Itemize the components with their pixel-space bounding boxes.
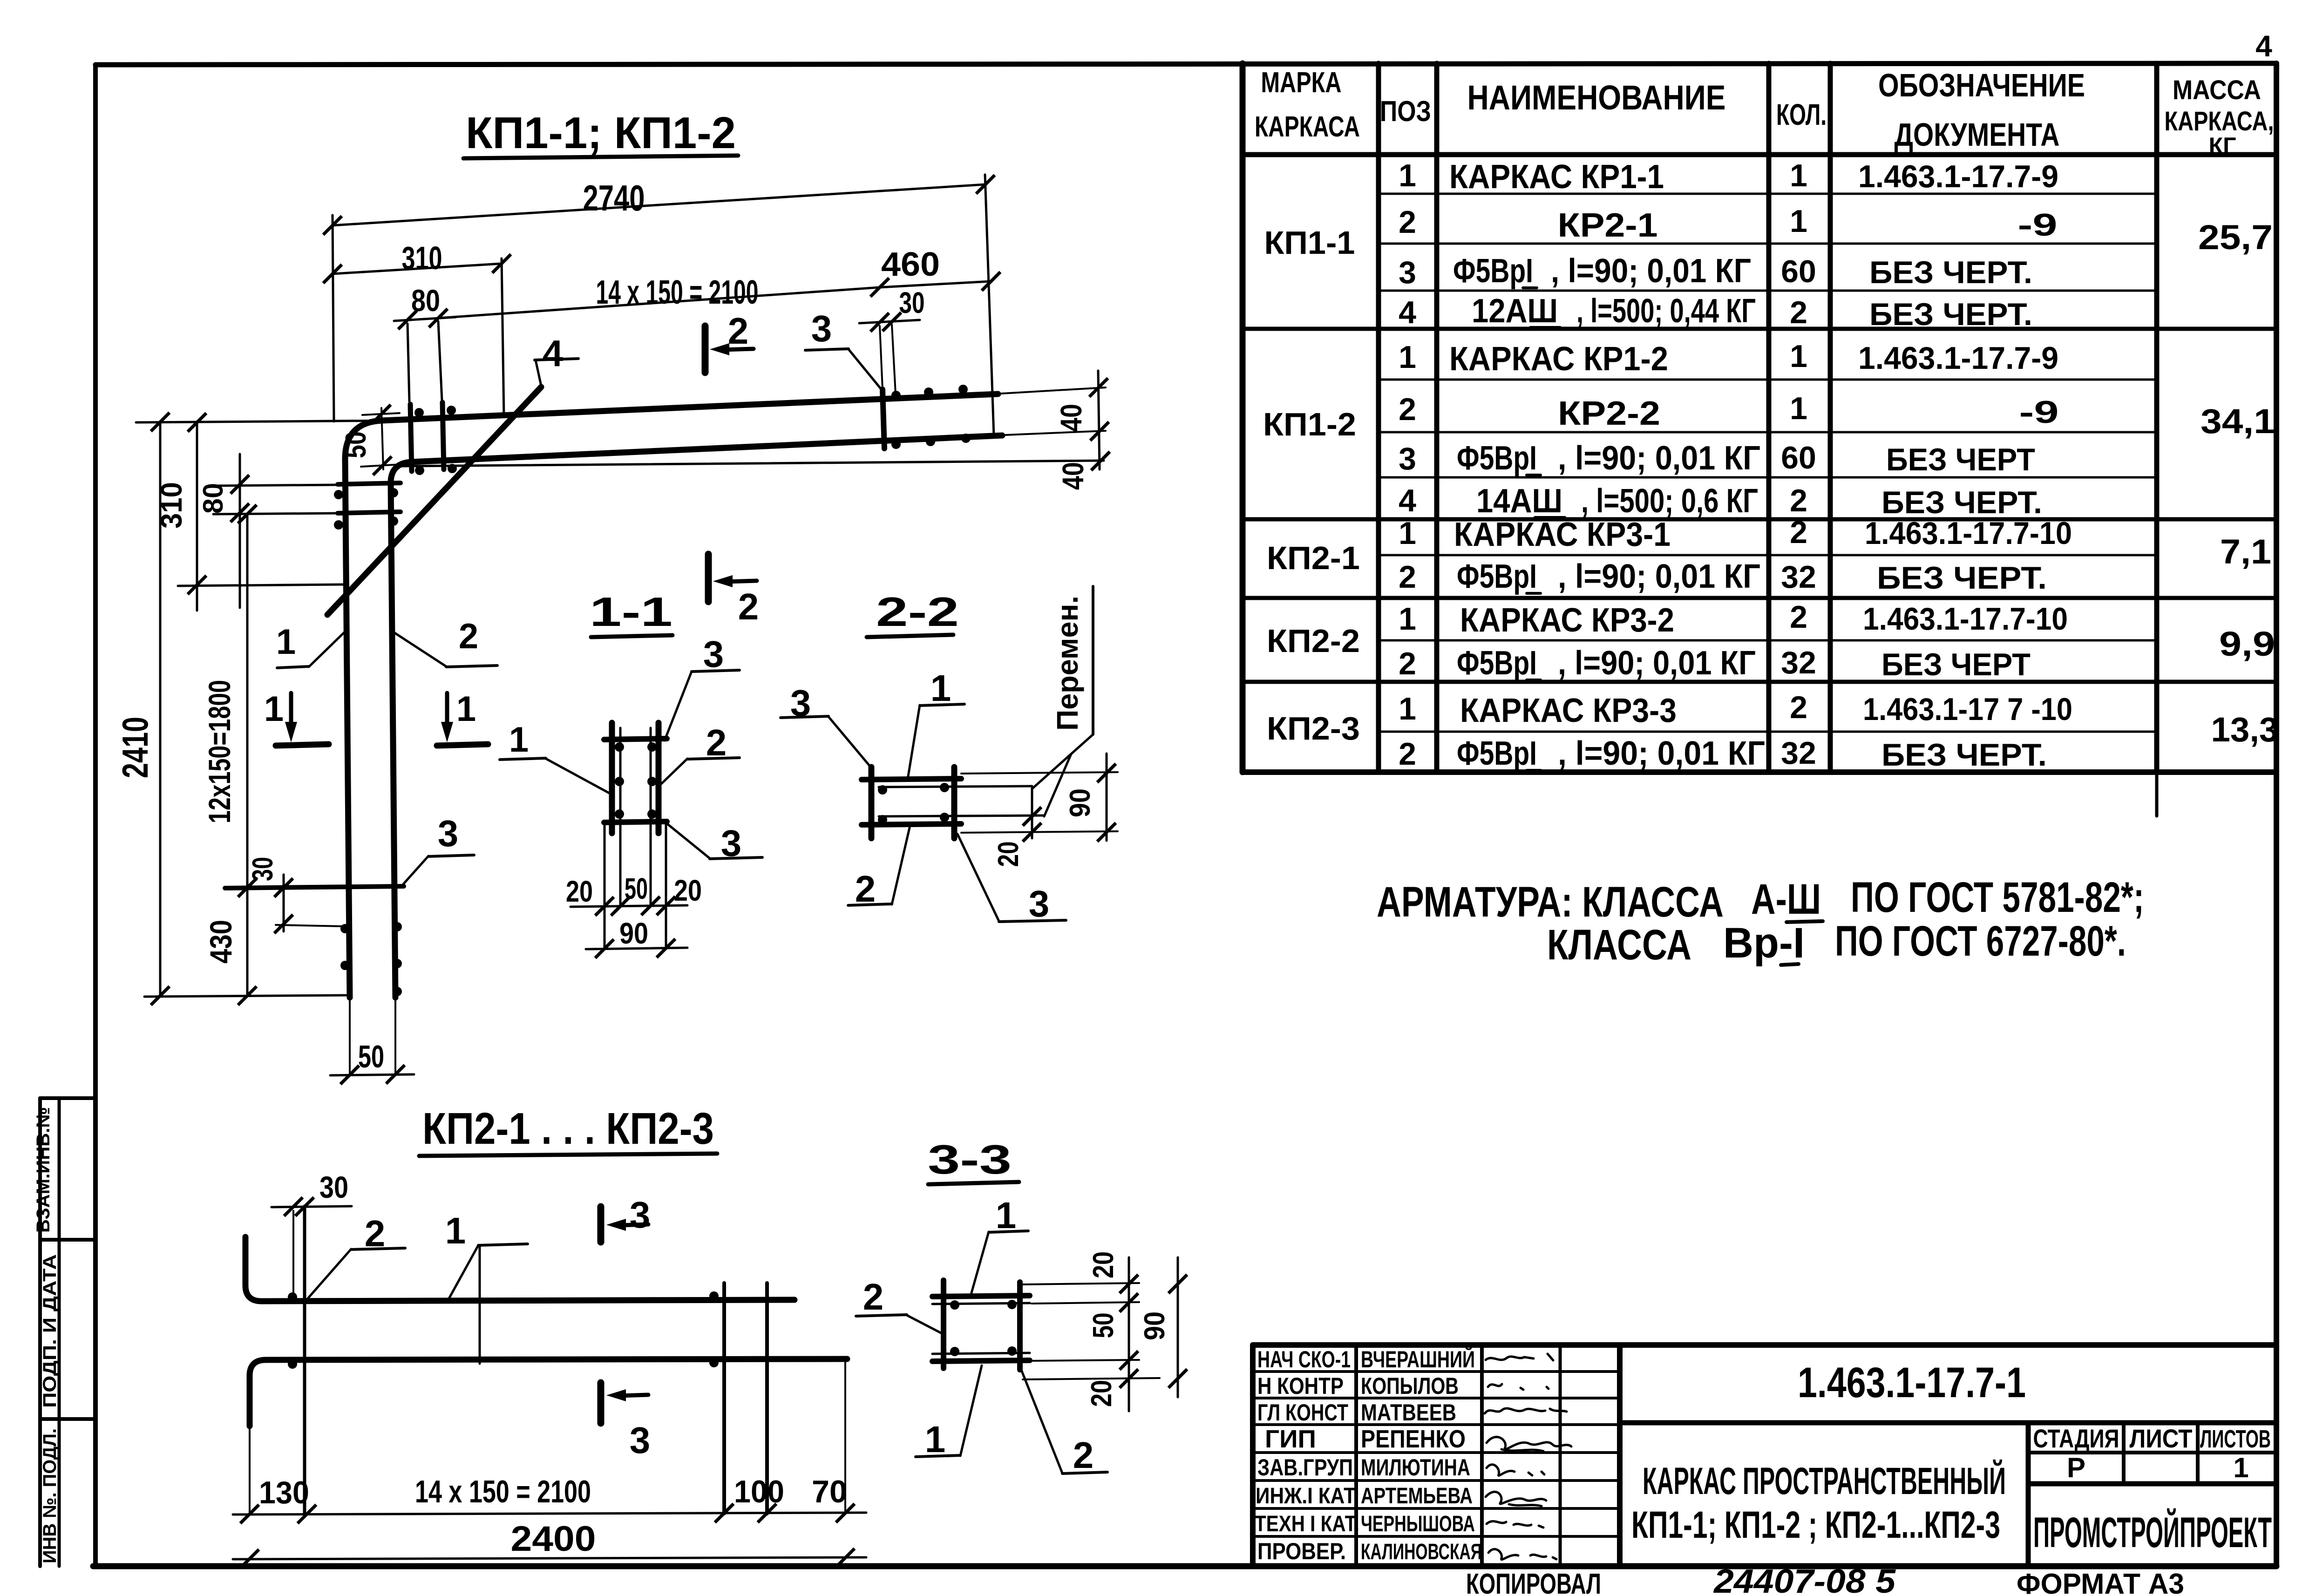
weld dots on column chords at corner ties: [334, 490, 343, 499]
svg-text:2740: 2740: [583, 177, 645, 218]
table row line r2: [1379, 243, 2157, 245]
svg-text:70: 70: [812, 1474, 847, 1509]
svg-text:2: 2: [1399, 204, 1416, 240]
dim 14x150=2100: [438, 287, 880, 318]
svg-text:90: 90: [619, 917, 648, 950]
svg-text:ИНВ №. ПОДЛ.: ИНВ №. ПОДЛ.: [40, 1428, 60, 1563]
svg-text:20: 20: [566, 875, 593, 908]
svg-text:25,7: 25,7: [2198, 218, 2273, 257]
КП2 section mark 3 lower: [598, 1383, 604, 1423]
svg-text:12x150=1800: 12x150=1800: [202, 680, 237, 823]
svg-text:30: 30: [899, 286, 925, 319]
svg-text:2: 2: [728, 310, 749, 352]
section mark 1 right: [437, 744, 488, 746]
svg-text:КГ: КГ: [2209, 133, 2236, 159]
svg-text:12АШ: 12АШ: [1472, 292, 1558, 330]
section 1-1 outer extension lines: [604, 822, 606, 948]
svg-text:Ф5ВрI: Ф5ВрI: [1457, 645, 1537, 682]
svg-text:ПОДП. И ДАТА: ПОДП. И ДАТА: [40, 1254, 60, 1408]
table outer left border: [1240, 63, 1246, 772]
svg-text:ТЕХН I КАТ.: ТЕХН I КАТ.: [1255, 1512, 1359, 1536]
svg-text:БЕЗ ЧЕРТ.: БЕЗ ЧЕРТ.: [1881, 737, 2047, 773]
svg-text:20: 20: [992, 842, 1025, 867]
svg-text:ЗАВ.ГРУП: ЗАВ.ГРУП: [1257, 1454, 1353, 1481]
table column line Наименование/Кол: [1766, 63, 1772, 772]
svg-text:2: 2: [459, 617, 478, 656]
svg-text:90: 90: [1064, 788, 1096, 817]
svg-text:ЛИСТОВ: ЛИСТОВ: [2200, 1425, 2271, 1453]
svg-text:2: 2: [1790, 690, 1807, 725]
svg-text:2: 2: [1790, 483, 1807, 518]
svg-text:40: 40: [1056, 462, 1090, 490]
svg-text:1.463.1-17 7 -10: 1.463.1-17 7 -10: [1863, 692, 2072, 727]
svg-text:ГИП: ГИП: [1265, 1425, 1316, 1453]
svg-text:КОЛ.: КОЛ.: [1776, 98, 1827, 131]
svg-text:40: 40: [1054, 404, 1088, 432]
svg-text:А-Ш: А-Ш: [1751, 876, 1821, 923]
section 3-3 stirrup right leg: [1017, 1282, 1023, 1370]
svg-text:КАРКАС КР3-1: КАРКАС КР3-1: [1454, 516, 1671, 553]
section 3-3 extension lines: [1023, 1283, 1139, 1284]
table row line r5: [1379, 379, 2157, 381]
dim 30 (column bottom): [283, 875, 285, 931]
svg-text:-9: -9: [2019, 394, 2059, 430]
svg-text:Н КОНТР: Н КОНТР: [1257, 1373, 1344, 1399]
column tie a: [338, 483, 401, 484]
svg-text:2: 2: [1790, 295, 1807, 330]
svg-text:КОПИРОВАЛ: КОПИРОВАЛ: [1466, 1568, 1601, 1596]
svg-text:2: 2: [1073, 1434, 1094, 1476]
section 2-2 dim 20: [1031, 788, 1033, 838]
svg-text:1: 1: [930, 667, 951, 709]
svg-text:2: 2: [1399, 559, 1416, 595]
section 1-1 dim 90: [586, 948, 687, 949]
svg-text:ИНЖ.I КАТ: ИНЖ.I КАТ: [1256, 1484, 1356, 1508]
svg-text:14 x 150 = 2100: 14 x 150 = 2100: [596, 274, 759, 311]
svg-text:2: 2: [738, 586, 759, 627]
beam stirrup near corner a: [410, 404, 412, 471]
svg-text:КАРКАСА: КАРКАСА: [1255, 111, 1360, 143]
svg-text:32: 32: [1781, 735, 1816, 771]
svg-text:КП1-1: КП1-1: [1264, 224, 1355, 261]
svg-text:2: 2: [1399, 736, 1416, 772]
dim 12x150=1800 (vertical): [246, 514, 249, 996]
weld dots on beam bottom chord: [415, 466, 424, 475]
signature table verticals: [1354, 1345, 1358, 1566]
dim 30 right: [859, 320, 920, 323]
svg-text:1: 1: [996, 1195, 1017, 1236]
dim 80 top: [394, 317, 455, 321]
svg-text:100: 100: [734, 1474, 784, 1509]
svg-text:2400: 2400: [511, 1519, 596, 1559]
svg-text:20: 20: [1086, 1380, 1118, 1407]
svg-text:КЛАССА: КЛАССА: [1547, 921, 1691, 969]
section 1-1 stirrup left leg (thin): [619, 728, 622, 906]
svg-text:БЕЗ ЧЕРТ.: БЕЗ ЧЕРТ.: [1877, 560, 2047, 596]
svg-text:ФОРМАТ А3: ФОРМАТ А3: [2017, 1568, 2184, 1596]
svg-text:3-3: 3-3: [928, 1136, 1012, 1182]
svg-text:ПРОМСТРОЙПРОЕКТ: ПРОМСТРОЙПРОЕКТ: [2033, 1508, 2272, 1556]
svg-text:3: 3: [703, 633, 724, 675]
section 1-1 dims 20 50 20: [571, 905, 687, 907]
section 2-2 weld dots: [878, 785, 887, 795]
svg-text:1: 1: [456, 689, 476, 729]
svg-text:СТАДИЯ: СТАДИЯ: [2033, 1424, 2119, 1453]
svg-text:20: 20: [674, 874, 702, 907]
table bottom border: [1243, 769, 2276, 775]
svg-text:Ф5ВрI: Ф5ВрI: [1457, 440, 1537, 477]
svg-text:Ф5ВрI: Ф5ВрI: [1457, 558, 1537, 595]
КП2 bottom bar pos 1 with hook down: [250, 1359, 847, 1426]
КП1 frame: top chord + left chord (bar pos 1): [345, 394, 998, 998]
section 3-3 wires thin: [932, 1303, 1030, 1304]
svg-text:КП1-1; КП1-2 ; КП2-1...КП2-3: КП1-1; КП1-2 ; КП2-1...КП2-3: [1631, 1504, 2000, 1546]
svg-text:20: 20: [1087, 1251, 1120, 1278]
svg-text:3: 3: [811, 308, 832, 349]
svg-text:30: 30: [247, 857, 279, 881]
table row line r9: [1379, 554, 2157, 557]
svg-text:МАССА: МАССА: [2173, 75, 2261, 105]
svg-text:14АШ: 14АШ: [1476, 482, 1562, 520]
beam stirrup right end: [883, 389, 884, 448]
svg-text:50: 50: [358, 1039, 384, 1074]
svg-text:1: 1: [1790, 204, 1807, 239]
svg-text:КР2-1: КР2-1: [1558, 207, 1658, 244]
specification table grid: [1243, 63, 2276, 816]
svg-text:1: 1: [1399, 691, 1416, 727]
svg-text:ГЛ КОНСТ: ГЛ КОНСТ: [1257, 1399, 1348, 1426]
section 2-2 extension lines: [961, 772, 1118, 774]
svg-text:1.463.1-17.7-10: 1.463.1-17.7-10: [1865, 516, 2072, 551]
table column line Обозначение/Масса: [2154, 63, 2160, 772]
svg-text:КАРКАС КР1-1: КАРКАС КР1-1: [1449, 158, 1664, 196]
table row line r1: [1379, 193, 2157, 195]
weld dots on beam top chord: [414, 408, 424, 417]
dim 310 vertical (left of column): [196, 421, 198, 611]
svg-text:ВЗАМ.ИНВ.№: ВЗАМ.ИНВ.№: [33, 1107, 54, 1233]
column tie b: [338, 512, 401, 513]
dim 50 (column bottom): [330, 1074, 414, 1075]
svg-text:ЛИСТ: ЛИСТ: [2130, 1424, 2193, 1453]
svg-text:КОПЫЛОВ: КОПЫЛОВ: [1361, 1373, 1459, 1399]
table group line КП1-2 end: [1243, 517, 2276, 522]
svg-text:ДОКУМЕНТА: ДОКУМЕНТА: [1895, 116, 2060, 153]
svg-text:32: 32: [1781, 645, 1816, 680]
right end dims 40 / 40: [1001, 387, 1106, 394]
КП2 weld dots: [288, 1292, 297, 1302]
svg-text:КП2-2: КП2-2: [1267, 623, 1360, 659]
svg-text:ПО ГОСТ 6727-80*.: ПО ГОСТ 6727-80*.: [1835, 917, 2126, 965]
svg-text:КП1-2: КП1-2: [1263, 406, 1356, 442]
svg-text:, l=90; 0,01 КГ: , l=90; 0,01 КГ: [1558, 440, 1760, 477]
svg-text:1: 1: [1399, 158, 1416, 193]
svg-text:БЕЗ ЧЕРТ: БЕЗ ЧЕРТ: [1886, 442, 2035, 477]
section 2-2 dim 90: [1106, 754, 1108, 841]
КП2 bottom dim chain 130 / 14x150=2100 / 100 / 70: [233, 1513, 866, 1515]
section 3-3 weld dots: [950, 1300, 959, 1310]
table group line КП2-2 end: [1243, 680, 2276, 684]
svg-text:АРТЕМЬЕВА: АРТЕМЬЕВА: [1361, 1484, 1473, 1508]
svg-text:9,9: 9,9: [2219, 625, 2275, 663]
svg-text:КП2-3: КП2-3: [1267, 710, 1360, 747]
top chord level extension line: [136, 421, 401, 422]
section 2-2 stirrup left leg: [869, 767, 875, 838]
svg-text:1: 1: [1790, 339, 1807, 374]
svg-text:-9: -9: [2018, 207, 2058, 243]
svg-text:ОБОЗНАЧЕНИЕ: ОБОЗНАЧЕНИЕ: [1878, 67, 2085, 103]
svg-text:КАЛИНОВСКАЯ: КАЛИНОВСКАЯ: [1361, 1540, 1482, 1564]
svg-text:32: 32: [1781, 559, 1816, 595]
svg-text:30: 30: [319, 1170, 348, 1204]
svg-text:Перемен.: Перемен.: [1051, 596, 1084, 731]
svg-text:1: 1: [2233, 1452, 2248, 1483]
svg-text:ПО ГОСТ 5781-82*;: ПО ГОСТ 5781-82*;: [1851, 874, 2144, 921]
svg-text:80: 80: [411, 283, 440, 318]
beam stirrup near corner b: [442, 402, 444, 469]
section 3-3 stirrup left leg: [941, 1280, 946, 1368]
table header bottom line: [1243, 152, 2276, 157]
section 3-3 top bar: [932, 1296, 1030, 1297]
svg-text:МИЛЮТИНА: МИЛЮТИНА: [1361, 1454, 1470, 1481]
КП1 frame: bottom chord + right chord (bar pos 2): [391, 435, 1002, 998]
svg-text:1: 1: [1399, 601, 1416, 637]
svg-text:13,3: 13,3: [2211, 710, 2279, 749]
svg-text:КАРКАС КР1-2: КАРКАС КР1-2: [1449, 340, 1668, 378]
svg-text:3: 3: [438, 813, 459, 854]
svg-text:, l=500; 0,44 КГ: , l=500; 0,44 КГ: [1576, 292, 1756, 330]
svg-text:1: 1: [264, 689, 284, 729]
svg-text:310: 310: [402, 240, 442, 276]
svg-text:КАРКАСА,: КАРКАСА,: [2165, 106, 2274, 136]
svg-text:4: 4: [1399, 483, 1416, 518]
section 1-1 top wire: [604, 739, 667, 740]
svg-text:1: 1: [1399, 516, 1416, 551]
svg-text:НАЧ СКО-1: НАЧ СКО-1: [1257, 1346, 1351, 1372]
signature table row lines: [1253, 1370, 1620, 1373]
svg-text:1.463.1-17.7-10: 1.463.1-17.7-10: [1863, 601, 2068, 637]
svg-text:КАРКАС КР3-2: КАРКАС КР3-2: [1460, 602, 1674, 639]
svg-text:34,1: 34,1: [2201, 402, 2275, 441]
svg-text:ЧЕРНЫШОВА: ЧЕРНЫШОВА: [1361, 1512, 1475, 1536]
svg-text:3: 3: [1399, 441, 1416, 476]
table row line r13: [1379, 731, 2157, 733]
svg-text:КП1-1; КП1-2: КП1-1; КП1-2: [466, 108, 736, 158]
svg-text:КАРКАС КР3-3: КАРКАС КР3-3: [1460, 692, 1677, 729]
svg-text:60: 60: [1781, 440, 1816, 475]
section 2-2 top bar: [862, 779, 961, 780]
section 1-1 stirrup right leg (thin): [650, 728, 652, 906]
КП2 top bar pos 1 with hook up: [245, 1237, 795, 1301]
svg-text:, l=90; 0,01 КГ: , l=90; 0,01 КГ: [1558, 558, 1760, 595]
table column line stub below Масса: [2155, 772, 2159, 816]
КП2 right stirrup b: [765, 1283, 769, 1514]
svg-text:МАТВЕЕВ: МАТВЕЕВ: [1361, 1399, 1456, 1426]
section 2-2 bottom bar: [862, 824, 961, 825]
svg-text:3: 3: [1399, 255, 1416, 290]
section 3-3 dim line 20/50/20: [1128, 1257, 1130, 1411]
svg-text:БЕЗ ЧЕРТ.: БЕЗ ЧЕРТ.: [1881, 485, 2042, 520]
section mark 2 lower: [705, 554, 712, 602]
svg-text:МАРКА: МАРКА: [1261, 67, 1342, 99]
section 3-3 dim 90: [1177, 1257, 1179, 1397]
table column line Кол/Обозначение: [1828, 63, 1833, 772]
svg-text:1-1: 1-1: [590, 589, 672, 635]
svg-text:3: 3: [630, 1194, 651, 1236]
svg-text:ВЧЕРАШНИЙ: ВЧЕРАШНИЙ: [1361, 1346, 1475, 1372]
svg-text:АРМАТУРА: КЛАССА: АРМАТУРА: КЛАССА: [1377, 878, 1724, 926]
svg-text:3: 3: [1029, 883, 1050, 924]
svg-text:1.463.1-17.7-1: 1.463.1-17.7-1: [1798, 1359, 2026, 1406]
dim 460: [880, 281, 991, 287]
КП2 first stirrup pos 2: [303, 1206, 306, 1514]
section 1-1 right chord bar: [656, 723, 662, 833]
svg-text:460: 460: [881, 246, 940, 283]
svg-text:, l=90; 0,01 КГ: , l=90; 0,01 КГ: [1558, 645, 1756, 682]
svg-text:2: 2: [1790, 515, 1807, 550]
svg-text:, l=500; 0,6 КГ: , l=500; 0,6 КГ: [1581, 482, 1758, 520]
svg-text:1: 1: [1790, 158, 1807, 193]
svg-text:1: 1: [1790, 391, 1807, 426]
svg-text:2: 2: [1399, 392, 1416, 427]
svg-text:Вр-I: Вр-I: [1723, 919, 1805, 967]
svg-text:1: 1: [445, 1210, 466, 1251]
section 1-1 left chord bar: [609, 723, 615, 833]
svg-text:КП2-1: КП2-1: [1267, 540, 1360, 576]
svg-text:, l=90; 0,01 КГ: , l=90; 0,01 КГ: [1551, 252, 1751, 290]
title block outer lines: [1253, 1345, 2276, 1566]
svg-text:БЕЗ ЧЕРТ.: БЕЗ ЧЕРТ.: [1869, 255, 2032, 290]
svg-text:50: 50: [625, 872, 648, 905]
svg-text:ПОЗ: ПОЗ: [1380, 95, 1431, 128]
svg-text:1: 1: [276, 622, 296, 662]
svg-text:КР2-2: КР2-2: [1558, 395, 1660, 432]
svg-text:Ф5ВрI: Ф5ВрI: [1457, 735, 1537, 772]
КП2 dim 2400: [233, 1557, 866, 1559]
svg-text:КП2-1 . . . КП2-3: КП2-1 . . . КП2-3: [422, 1104, 714, 1154]
svg-text:4: 4: [543, 333, 564, 374]
table group line КП1-1 end: [1243, 327, 2276, 331]
table column line Поз/Наименование: [1434, 63, 1440, 772]
svg-text:24407-08 5: 24407-08 5: [1713, 1563, 1896, 1596]
svg-text:1: 1: [925, 1419, 946, 1460]
dim 2740 extension lines: [333, 215, 334, 421]
section mark 1 left: [276, 744, 329, 746]
dim 80 vertical (left of column): [239, 454, 241, 608]
column bottom extension line: [144, 995, 350, 997]
weld dots on column chords at bottom: [340, 924, 350, 933]
svg-text:3: 3: [630, 1419, 651, 1461]
svg-text:РЕПЕНКО: РЕПЕНКО: [1361, 1425, 1466, 1453]
svg-text:КАРКАС ПРОСТРАНСТВЕННЫЙ: КАРКАС ПРОСТРАНСТВЕННЫЙ: [1643, 1460, 2006, 1502]
svg-text:1: 1: [509, 720, 529, 760]
left margin cells box: [40, 1098, 95, 1566]
svg-text:60: 60: [1781, 254, 1816, 289]
svg-text:2410: 2410: [115, 717, 156, 778]
svg-text:2: 2: [1790, 599, 1807, 635]
svg-text:130: 130: [259, 1475, 309, 1510]
table column line Марка/Поз: [1376, 63, 1381, 772]
КП2 right stirrup a: [722, 1283, 726, 1514]
svg-text:7,1: 7,1: [2220, 532, 2271, 571]
section 2-2 wires (thin): [879, 786, 1032, 787]
table row line r3: [1379, 290, 2157, 292]
svg-text:1: 1: [1399, 340, 1416, 375]
svg-text:2: 2: [863, 1276, 884, 1318]
svg-text:50: 50: [1087, 1313, 1120, 1338]
table row line r11: [1379, 639, 2157, 642]
svg-text:4: 4: [1399, 295, 1416, 330]
svg-text:50: 50: [340, 431, 372, 458]
svg-text:НАИМЕНОВАНИЕ: НАИМЕНОВАНИЕ: [1467, 78, 1726, 117]
column bottom tie: [225, 886, 404, 888]
svg-text:, l=90; 0,01 КГ: , l=90; 0,01 КГ: [1558, 735, 1765, 772]
section 3-3 bottom bar: [932, 1360, 1030, 1361]
section 2-2 stirrup right leg: [951, 767, 958, 838]
svg-text:2: 2: [1399, 646, 1416, 681]
svg-text:80: 80: [197, 483, 229, 514]
dim 310 top: [333, 264, 502, 274]
svg-text:90: 90: [1139, 1311, 1171, 1340]
extension line at diagonal end level: [178, 584, 345, 586]
svg-text:1.463.1-17.7-9: 1.463.1-17.7-9: [1858, 159, 2058, 194]
svg-text:Ф5ВрI: Ф5ВрI: [1453, 252, 1533, 290]
svg-text:2-2: 2-2: [876, 589, 959, 635]
section mark 2 upper: [702, 326, 709, 373]
dim 2410 (vertical): [159, 421, 162, 996]
section 1-1 bottom wire: [604, 822, 667, 822]
svg-text:14 x 150 = 2100: 14 x 150 = 2100: [415, 1474, 591, 1509]
КП2 section mark 3 upper: [598, 1207, 604, 1242]
svg-text:1.463.1-17.7-9: 1.463.1-17.7-9: [1858, 340, 2058, 376]
table row line r7: [1379, 476, 2157, 479]
svg-text:310: 310: [155, 482, 188, 529]
section 1-1 weld dots: [615, 742, 624, 752]
svg-text:ПРОВЕР.: ПРОВЕР.: [1257, 1538, 1346, 1564]
svg-text:Р: Р: [2067, 1452, 2085, 1483]
dim 2740: [333, 184, 985, 225]
svg-text:БЕЗ ЧЕРТ: БЕЗ ЧЕРТ: [1881, 647, 2031, 682]
thin reference line under beam: [399, 461, 1104, 466]
svg-text:4: 4: [2255, 29, 2272, 63]
table group line КП2-1 end: [1243, 596, 2276, 600]
svg-text:БЕЗ ЧЕРТ.: БЕЗ ЧЕРТ.: [1869, 297, 2032, 332]
table row line r6: [1379, 431, 2157, 434]
КП2 dim 30: [272, 1206, 352, 1207]
diagonal bar pos 4: [327, 387, 541, 615]
svg-text:430: 430: [204, 920, 238, 964]
